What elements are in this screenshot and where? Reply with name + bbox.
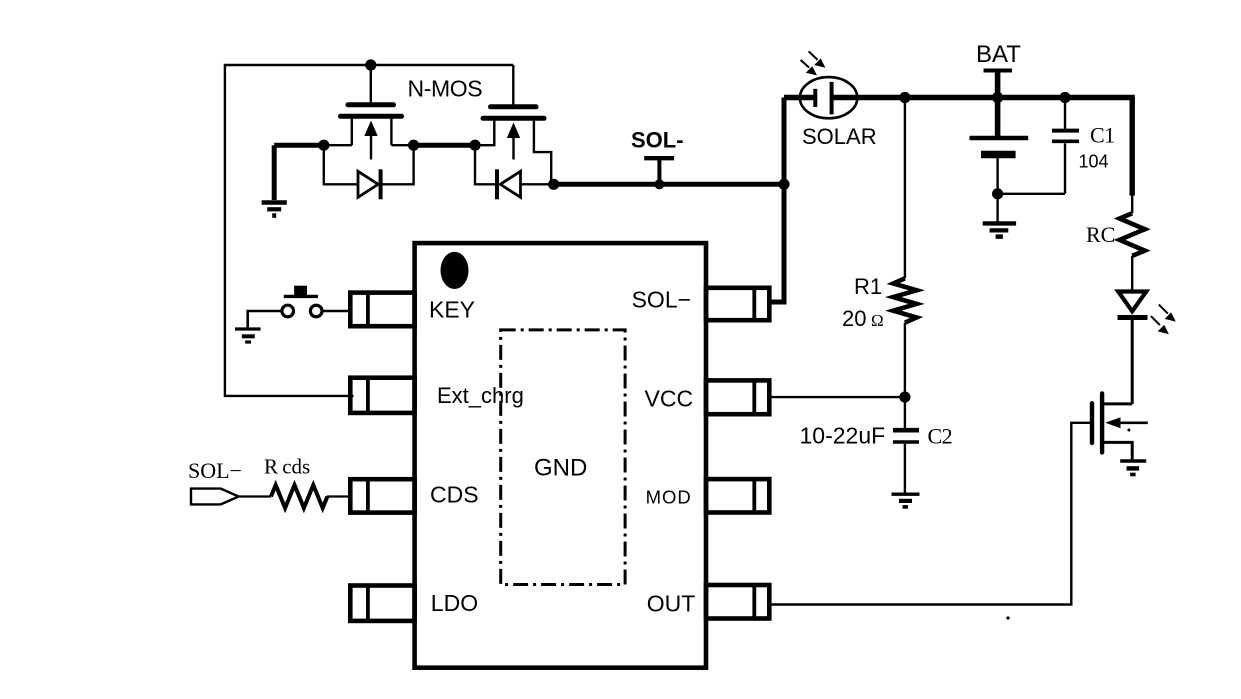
terminal SOL- [644, 158, 674, 184]
ground (push button) [235, 329, 261, 342]
node Q1 drain [408, 140, 419, 151]
svg-text:GND: GND [534, 455, 587, 482]
wire button to KEY pin [322, 310, 350, 313]
svg-text:20: 20 [842, 306, 866, 331]
node C1 top [1059, 92, 1070, 103]
node SOL- riser junction [778, 179, 789, 190]
pin LDO [350, 586, 414, 621]
transistor Q3 [1092, 393, 1148, 459]
pin SOL- [706, 288, 769, 320]
light arrows into solar cell [801, 51, 826, 75]
IC U1 body [415, 243, 706, 668]
svg-text:SOL−: SOL− [632, 287, 691, 313]
node BAT bottom [992, 188, 1003, 199]
svg-text:VCC: VCC [645, 386, 694, 412]
wire Q1 gate drop [370, 65, 372, 103]
node gate junction [365, 59, 376, 70]
node Q1 source [318, 140, 329, 151]
LED D3 [1118, 292, 1148, 318]
pin MOD [706, 479, 769, 512]
solar cell PV1 [784, 77, 1135, 118]
diode D1 (Q1 body) [324, 145, 414, 199]
svg-text:10-22uF: 10-22uF [800, 423, 886, 449]
pin-1 marker [441, 252, 469, 289]
capacitor C1 [1052, 98, 1079, 194]
wire BAT to C1 bottom [998, 193, 1065, 195]
wire SOL- riser [769, 98, 784, 303]
wire pointer to Rcds [239, 495, 271, 497]
node Q2 source [469, 140, 480, 151]
svg-text:R cds: R cds [264, 455, 310, 479]
node D2 output [548, 179, 559, 190]
light arrows out of LED [1151, 305, 1176, 335]
capacitor C2 [893, 397, 919, 493]
wire Q2 gate drop [512, 65, 514, 105]
GND region box [501, 330, 625, 585]
ground (Q1 source leg) [262, 145, 287, 215]
resistor RC [1120, 213, 1145, 256]
terminal SOL- input pointer [191, 489, 239, 505]
svg-text:BAT: BAT [976, 41, 1021, 68]
svg-text:OUT: OUT [647, 591, 696, 617]
resistor R1 [893, 98, 916, 398]
node BAT top [992, 92, 1003, 103]
ground (Q3 source) [1120, 461, 1146, 475]
wire gate bus top-left loop [225, 65, 513, 396]
stray dot [1006, 616, 1009, 619]
svg-text:RC: RC [1086, 222, 1115, 247]
node VCC R1 C2 [899, 392, 910, 403]
wire button to ground [248, 311, 282, 328]
wire Q3 gate to OUT pin [769, 423, 1092, 605]
svg-text:CDS: CDS [430, 482, 479, 508]
wire top right corner down [1129, 98, 1134, 196]
transistor Q2 [475, 107, 551, 185]
node solar / R1 tap [899, 92, 910, 103]
svg-text:MOD: MOD [646, 487, 692, 508]
ground (C2) [892, 494, 920, 507]
svg-text:C1: C1 [1090, 123, 1115, 148]
wire Rcds to CDS pin [327, 495, 350, 497]
svg-text:SOLAR: SOLAR [802, 124, 877, 149]
wire SOL- bus [554, 182, 784, 187]
pin OUT [706, 585, 769, 619]
svg-text:LDO: LDO [431, 590, 478, 616]
wire LED to Q3 drain [1131, 318, 1134, 404]
svg-text:R1: R1 [854, 274, 882, 299]
transistor Q1 [341, 105, 402, 160]
wire source row [274, 143, 324, 148]
ground (battery) [983, 194, 1016, 237]
svg-text:C2: C2 [928, 424, 953, 449]
svg-text:N-MOS: N-MOS [408, 76, 483, 102]
svg-text:SOL-: SOL- [631, 128, 684, 153]
battery BAT [970, 71, 1029, 194]
svg-text:KEY: KEY [429, 297, 475, 323]
pin CDS [350, 479, 414, 512]
svg-text:SOL−: SOL− [188, 458, 242, 483]
diode D2 (Q2 body) [475, 145, 554, 199]
svg-text:Ω: Ω [871, 311, 884, 330]
pin Ext_chrg [350, 378, 414, 413]
node SOL- tap [654, 179, 664, 189]
wire RC to LED [1131, 256, 1133, 292]
pin KEY [350, 293, 414, 327]
svg-text:104: 104 [1079, 152, 1109, 172]
svg-text:Ext_chrg: Ext_chrg [437, 383, 524, 408]
push button S1 [282, 286, 322, 317]
wire VCC to node [769, 396, 905, 398]
pin VCC [706, 380, 769, 414]
resistor Rcds [271, 485, 327, 508]
